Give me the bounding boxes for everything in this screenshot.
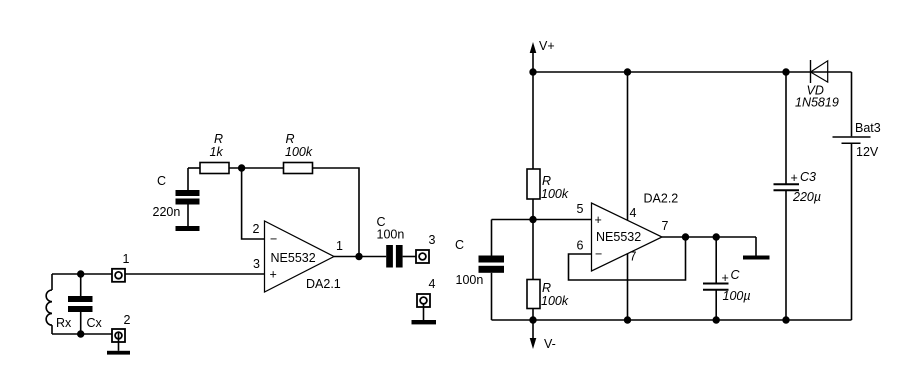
svg-text:100k: 100k xyxy=(285,145,313,159)
ground under terminal 2 xyxy=(107,342,130,355)
capacitor C 220n xyxy=(153,168,200,226)
battery Bat3 12V xyxy=(833,72,881,320)
V+ arrow xyxy=(530,39,555,72)
svg-text:R: R xyxy=(214,132,223,146)
ground under C 220n xyxy=(176,226,200,231)
wire R1k to node xyxy=(229,167,284,169)
svg-text:4: 4 xyxy=(429,277,436,291)
svg-text:1: 1 xyxy=(336,239,343,253)
node F bottom rail V- junction xyxy=(529,316,536,323)
svg-text:NE5532: NE5532 xyxy=(596,230,641,244)
svg-text:+: + xyxy=(722,271,729,285)
node V+ rail junction xyxy=(529,68,536,75)
capacitor C5 100u xyxy=(703,237,751,320)
wire cap to terminal 3 xyxy=(403,256,416,258)
wire to ground right xyxy=(755,237,757,256)
V- arrow xyxy=(530,320,556,351)
svg-text:4: 4 xyxy=(630,206,637,220)
svg-text:R: R xyxy=(542,281,551,295)
svg-text:3: 3 xyxy=(253,257,260,271)
svg-text:−: − xyxy=(595,247,602,261)
node rail C3 junction xyxy=(782,68,789,75)
svg-text:C3: C3 xyxy=(800,170,816,184)
svg-text:Rx: Rx xyxy=(56,316,72,330)
svg-text:+: + xyxy=(270,268,277,282)
svg-text:6: 6 xyxy=(577,239,584,253)
capacitor C3 220u xyxy=(774,72,822,320)
svg-text:Cx: Cx xyxy=(87,316,103,330)
wire top rail xyxy=(533,71,810,73)
svg-text:DA2.2: DA2.2 xyxy=(644,192,679,206)
wire divider node to pin5 xyxy=(492,219,592,221)
svg-text:7: 7 xyxy=(630,250,637,264)
capacitor C 100n output xyxy=(377,215,405,268)
wire op-amp output xyxy=(334,256,386,258)
capacitor C 100n right xyxy=(455,220,504,321)
svg-text:−: − xyxy=(270,232,277,246)
ground right of DA2.2 xyxy=(743,256,770,260)
wire C220n to R1k xyxy=(188,167,200,169)
wire bottom left horizontal xyxy=(52,333,112,335)
svg-text:C: C xyxy=(455,238,464,252)
svg-text:C: C xyxy=(731,268,741,282)
op-amp U1 DA2.1 xyxy=(253,221,344,292)
svg-text:2: 2 xyxy=(124,313,131,327)
terminal 3 xyxy=(416,233,436,263)
node J bottom rail C100u junction xyxy=(713,316,720,323)
svg-text:DA2.1: DA2.1 xyxy=(306,277,341,291)
op-amp U2 DA2.2 xyxy=(577,192,679,272)
node C feedback junction xyxy=(238,164,245,171)
wire output pin7 xyxy=(662,236,756,238)
node G bottom rail pin junction xyxy=(624,316,631,323)
svg-text:5: 5 xyxy=(577,202,584,216)
svg-text:V+: V+ xyxy=(539,39,555,53)
inductor Rx xyxy=(46,274,72,334)
svg-text:220n: 220n xyxy=(153,205,181,219)
wire pin6 feedback loop xyxy=(569,237,686,280)
svg-text:C: C xyxy=(157,174,166,188)
node B junction Rx/Cx bottom xyxy=(77,330,84,337)
wire input top left horizontal xyxy=(52,273,265,275)
wire bottom power pin xyxy=(627,253,629,320)
terminal 1 xyxy=(112,252,130,282)
svg-text:7: 7 xyxy=(662,219,669,233)
svg-text:1k: 1k xyxy=(210,145,224,159)
ground under terminal 4 xyxy=(412,320,437,324)
node K bottom rail C3 junction xyxy=(782,316,789,323)
svg-text:R: R xyxy=(542,174,551,188)
svg-text:2: 2 xyxy=(253,222,260,236)
node I output junction 2 xyxy=(713,233,720,240)
terminal 2 xyxy=(112,313,131,342)
resistor R3 100k upper xyxy=(527,72,569,220)
resistor R4 100k lower xyxy=(527,220,569,321)
node A junction Rx/Cx top xyxy=(77,270,84,277)
node H output junction xyxy=(682,233,689,240)
svg-text:NE5532: NE5532 xyxy=(271,251,316,265)
terminal 4 xyxy=(417,277,436,320)
svg-text:+: + xyxy=(595,213,602,227)
wire pin4 power xyxy=(627,72,629,220)
svg-text:1N5819: 1N5819 xyxy=(795,96,839,110)
svg-text:100n: 100n xyxy=(377,228,405,242)
node D output junction xyxy=(355,253,362,260)
wire R 100k to feedback vertical xyxy=(312,168,359,257)
wire bottom rail xyxy=(492,319,852,321)
node rail pin4 junction xyxy=(624,68,631,75)
wire node C down to pin 2 xyxy=(242,168,265,239)
resistor R2 100k xyxy=(284,132,313,174)
svg-text:100k: 100k xyxy=(541,187,569,201)
svg-text:12V: 12V xyxy=(856,145,879,159)
svg-text:1: 1 xyxy=(123,252,130,266)
svg-text:V-: V- xyxy=(544,337,556,351)
capacitor Cx xyxy=(68,274,103,334)
svg-text:3: 3 xyxy=(429,233,436,247)
svg-text:+: + xyxy=(791,171,798,185)
svg-text:100k: 100k xyxy=(541,294,569,308)
svg-text:Bat3: Bat3 xyxy=(855,121,881,135)
diode VD 1N5819 xyxy=(795,60,852,110)
svg-text:100n: 100n xyxy=(456,273,484,287)
resistor R1 1k xyxy=(200,132,229,174)
node E divider junction xyxy=(529,216,536,223)
svg-text:100µ: 100µ xyxy=(723,289,751,303)
svg-text:R: R xyxy=(286,132,295,146)
svg-text:220µ: 220µ xyxy=(792,190,821,204)
